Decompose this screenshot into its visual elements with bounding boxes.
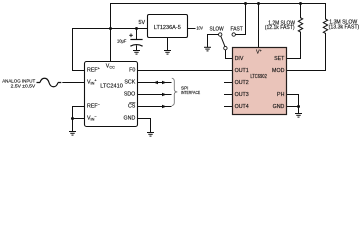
CS arrowhead — [162, 105, 167, 108]
wire VIN- stub — [73, 118, 85, 120]
capacitor plus sign — [129, 34, 133, 38]
svg-text:10V: 10V — [197, 26, 204, 32]
wire 5V feed to LT1236A-5 input — [73, 28, 148, 30]
junction node at capacitor — [135, 27, 138, 30]
svg-text:SLOW: SLOW — [210, 26, 224, 32]
ground under capacitor — [133, 51, 140, 55]
ground under LT1236A-5 — [164, 51, 171, 55]
wire SCK line — [138, 82, 172, 84]
junction node at VCC riser — [109, 27, 112, 30]
wire R1 bottom lead to SET — [287, 32, 301, 58]
junction node V+ on rail — [257, 2, 260, 5]
resistor R1 1.2M zigzag — [298, 18, 302, 32]
wire VIN-/REF- ground drop — [72, 119, 74, 132]
AC source sine symbol — [37, 78, 62, 87]
svg-text:LTC6902: LTC6902 — [250, 74, 267, 80]
wire OUT2 stub — [225, 82, 233, 84]
switch terminal FAST — [232, 33, 235, 36]
svg-text:OUT3: OUT3 — [235, 92, 249, 98]
ground at LTC2410 GND — [147, 133, 154, 137]
wire LTC2410 GND to ground — [138, 119, 151, 133]
wire F0 to OUT1 — [138, 70, 233, 72]
svg-text:GND: GND — [273, 104, 285, 110]
svg-text:GND: GND — [124, 115, 136, 121]
wire switch pole to DIV — [226, 50, 233, 59]
wire 5V top rail — [111, 3, 326, 5]
junction node LTC6902 GND — [297, 105, 300, 108]
wire R2 bottom lead to MOD — [287, 33, 326, 70]
svg-text:5V: 5V — [139, 20, 146, 26]
SCK bidirectional arrowheads — [154, 81, 159, 84]
wire capacitor bottom stub — [136, 46, 138, 50]
resistor R2 1.3M zigzag — [323, 19, 327, 33]
oscillator U3 LTC6902 box — [233, 48, 287, 115]
svg-text:LT1236A-5: LT1236A-5 — [154, 25, 181, 31]
switch blade — [221, 36, 225, 46]
wire REF+ riser — [73, 29, 85, 71]
wire SLOW terminal to ground — [208, 35, 219, 47]
wire LTC6902 GND to ground — [287, 107, 299, 114]
wire FAST terminal to rail — [236, 4, 246, 35]
wire V+ drop — [258, 4, 260, 48]
svg-text:F0: F0 — [129, 67, 135, 73]
svg-text:(12.1k FAST): (12.1k FAST) — [265, 25, 295, 31]
wire capacitor top stub — [136, 29, 138, 40]
ADC U1 LTC2410 box — [85, 62, 138, 127]
junction node R1 on rail — [299, 2, 302, 5]
capacitor C1 10uF plates — [130, 40, 142, 47]
svg-text:LTC2410: LTC2410 — [100, 84, 123, 90]
svg-text:(13.3k FAST): (13.3k FAST) — [329, 24, 360, 30]
junction node FAST on rail — [244, 2, 247, 5]
wire rail corner to R2 — [325, 4, 327, 20]
junction node VIN- — [71, 117, 74, 120]
svg-text:OUT1: OUT1 — [235, 68, 249, 74]
svg-text:SET: SET — [274, 56, 285, 62]
ground at LTC6902 GND — [295, 114, 302, 118]
wire OUT4 stub — [225, 106, 233, 108]
switch pole terminal — [224, 46, 227, 49]
svg-text:SCK: SCK — [124, 79, 135, 85]
SDO arrowhead — [162, 93, 167, 96]
svg-text:CS: CS — [128, 103, 136, 109]
wire LT1236A-5 10V output stub — [188, 28, 196, 30]
svg-text:10µF: 10µF — [117, 39, 126, 45]
svg-text:SDO: SDO — [124, 91, 135, 97]
svg-text:OUT4: OUT4 — [235, 104, 249, 110]
reference U2 LT1236A-5 box — [148, 15, 188, 38]
wire OUT3 stub — [225, 94, 233, 96]
switch terminal SLOW — [219, 33, 222, 36]
svg-text:INTERFACE: INTERFACE — [181, 90, 200, 95]
wire PH to ground riser — [287, 95, 299, 107]
ground at REF-/VIN- — [69, 132, 76, 136]
svg-text:FAST: FAST — [231, 26, 244, 32]
wire CS line — [138, 106, 172, 108]
svg-text:OUT2: OUT2 — [235, 80, 249, 86]
wire SDO line — [138, 94, 172, 96]
svg-text:PH: PH — [277, 92, 285, 98]
ground at SLOW switch throw — [204, 47, 211, 51]
svg-text:DIV: DIV — [235, 56, 244, 62]
wire REF- to ground riser — [73, 107, 85, 119]
wire analog input to VIN+ — [63, 82, 85, 84]
wire rail riser at VCC node — [110, 4, 112, 29]
svg-text:MOD: MOD — [272, 68, 285, 74]
wire LT1236A-5 ground lead — [167, 38, 169, 51]
wire VCC drop — [110, 29, 112, 62]
SPI brace — [172, 78, 178, 105]
wire R1 top lead — [300, 4, 302, 18]
svg-text:2.5V ±0.5V: 2.5V ±0.5V — [11, 84, 36, 90]
